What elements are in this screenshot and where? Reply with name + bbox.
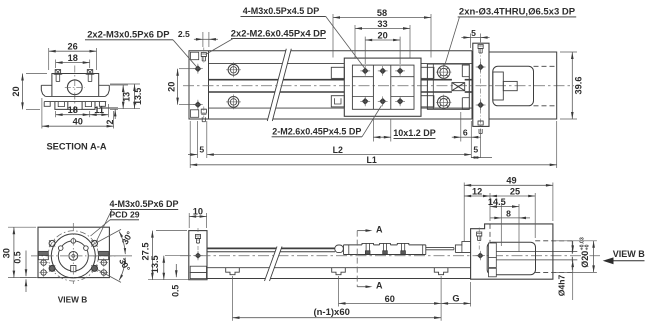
bottom view: motor hidden outline (dashed): [535, 240, 572, 242]
section cut line A-A: [356, 231, 358, 287]
top view: motor flange plate: [473, 43, 489, 126]
section A-A: ball screw bore circle: [67, 80, 82, 95]
bottom view: T-slots: [226, 268, 240, 275]
bottom view: coupling housing steps: [489, 224, 491, 243]
dim 18 top: [55, 60, 57, 69]
svg-text:L2: L2: [333, 145, 343, 155]
dim 40 bottom: [41, 98, 43, 129]
svg-text:18: 18: [68, 53, 78, 63]
bottom view: motor shaft solid lines: [496, 251, 577, 253]
dim 0.5 left (rotated): [20, 277, 38, 279]
dim 8: [500, 204, 502, 246]
top view: motor flange boss: [493, 72, 504, 100]
view B: side clamp blocks: [38, 251, 48, 255]
dim 25: [534, 193, 536, 238]
dim 18 bottom: [55, 111, 57, 117]
bottom view: bracket screw + centerline: [478, 228, 480, 251]
dim 20 left of rail: [179, 68, 195, 70]
svg-text:Ø20: Ø20: [580, 251, 590, 268]
svg-text:13.5: 13.5: [133, 88, 143, 105]
svg-text:G: G: [452, 293, 459, 303]
section A-A: table top screws M3: [55, 70, 60, 75]
top view: break lines: [267, 49, 291, 121]
svg-text:2xn-Ø3.4THRU,Ø6.5x3 DP: 2xn-Ø3.4THRU,Ø6.5x3 DP: [459, 7, 576, 18]
dim 30 left: [8, 226, 36, 228]
svg-text:30: 30: [2, 248, 12, 258]
top view: bearing symbol (crossed box): [452, 83, 465, 91]
top view: rail edge lines: [209, 63, 345, 65]
svg-text:2-M2.6x0.45Px4.5 DP: 2-M2.6x0.45Px4.5 DP: [272, 127, 361, 137]
view B: 30deg dimension lines: [92, 229, 122, 245]
svg-text:PCD 29: PCD 29: [109, 210, 139, 220]
svg-text:A: A: [376, 281, 383, 291]
dim 58: [332, 14, 334, 58]
svg-text:20: 20: [377, 30, 387, 40]
svg-text:58: 58: [377, 8, 387, 18]
top view: plate screw centerline: [480, 39, 482, 132]
dim L2: [207, 154, 472, 156]
svg-text:2.5: 2.5: [178, 29, 190, 39]
view B: shaft circle: [69, 252, 78, 261]
svg-text:4-M3x0.5Px4.5 DP: 4-M3x0.5Px4.5 DP: [243, 6, 320, 16]
svg-text:20: 20: [166, 82, 176, 92]
dim L1: [189, 121, 191, 168]
top view: left end block: [208, 51, 210, 119]
svg-text:0.5: 0.5: [13, 251, 23, 263]
view B: center crosslines: [72, 223, 74, 284]
svg-text:11: 11: [94, 105, 104, 115]
dim 39.6 right: [560, 51, 577, 53]
section A-A: base band lines: [45, 95, 105, 97]
svg-text:5: 5: [199, 145, 204, 155]
top view: plate top/bottom screws: [478, 45, 483, 49]
dim Ø4h7 (rotated): [572, 241, 574, 253]
svg-text:33: 33: [377, 19, 387, 29]
svg-text:20: 20: [11, 86, 21, 96]
top view: right block bracket features: [462, 65, 469, 77]
svg-text:8: 8: [506, 208, 511, 218]
svg-text:0.5: 0.5: [170, 285, 180, 297]
dim 11 bottom: [107, 104, 109, 117]
bottom view: base rail lower lines: [207, 267, 471, 269]
view B: housing rectangle: [38, 227, 109, 277]
dim 49: [463, 183, 465, 242]
bottom view: block center screw (diamond): [195, 252, 201, 258]
top view: carriage screw holes (diamonds): [362, 68, 369, 75]
bottom view: base rail top surface (thick): [207, 247, 335, 249]
dim 13.5 right: [110, 83, 140, 85]
dim 60: [338, 276, 340, 307]
dim Ø20 +0.03/+0 (rotated): [593, 241, 595, 273]
top view: main body outline: [189, 51, 472, 119]
top view: carriage right wipers: [421, 67, 434, 78]
svg-text:6: 6: [463, 127, 468, 137]
svg-text:40: 40: [73, 117, 83, 127]
dim 12: [489, 193, 491, 221]
section A-A: moving table outline: [52, 74, 99, 97]
top view: rail mounting holes: [228, 64, 239, 75]
dim 26 top: [48, 48, 50, 70]
dim 2.5 top-left: [202, 32, 204, 47]
dim 20 left of section: [26, 73, 47, 75]
svg-text:A: A: [376, 225, 383, 235]
dim 20 (carriage screws): [364, 37, 366, 64]
top view: motor body rounded square: [493, 66, 534, 106]
svg-text:26: 26: [67, 42, 77, 52]
svg-text:10: 10: [193, 207, 203, 217]
svg-text:13: 13: [122, 92, 132, 102]
view B: 4 mounting screws M3 on PCD: [49, 240, 55, 246]
svg-text:2x2-M3x0.5Px6 DP: 2x2-M3x0.5Px6 DP: [87, 29, 169, 40]
top view: ball screw cover band: [209, 79, 345, 81]
svg-text:VIEW B: VIEW B: [58, 294, 88, 304]
svg-text:VIEW B: VIEW B: [613, 249, 646, 259]
bottom view: screw cover plate right of carriage: [426, 247, 454, 249]
dim 33: [354, 25, 356, 58]
dim 13 right: [110, 84, 128, 86]
dim 5 right bottom: [480, 129, 482, 158]
svg-text:12: 12: [472, 186, 482, 196]
bottom view: block bottom detail rects: [190, 266, 206, 272]
top view: left block screws M3 (diamonds): [195, 65, 202, 72]
bottom view: carriage table body: [344, 244, 363, 246]
svg-text:30°: 30°: [117, 257, 132, 274]
bottom view: block top screw: [197, 228, 199, 250]
top view: motor hidden lines (dashed): [534, 65, 557, 67]
svg-text:+0: +0: [585, 244, 591, 250]
dim 10 (left block width): [188, 213, 190, 228]
bottom view: right end cap block: [455, 242, 470, 253]
section A-A: side wing ledges: [41, 84, 52, 86]
svg-text:L1: L1: [366, 155, 376, 165]
svg-text:5: 5: [471, 28, 476, 38]
svg-text:(n-1)x60: (n-1)x60: [313, 307, 349, 318]
svg-text:39.6: 39.6: [574, 77, 584, 95]
dim 10x1.2 DP: [372, 119, 374, 142]
svg-text:4-M3x0.5Px6 DP: 4-M3x0.5Px6 DP: [109, 199, 178, 209]
dim 5 top right: [469, 34, 471, 49]
top view: plate screws (diamonds): [477, 64, 484, 71]
bottom view: left end block: [189, 231, 207, 280]
section A-A: left wing profile: [41, 85, 45, 96]
section A-A: base feet and slots: [55, 102, 68, 110]
top view: centerline: [183, 85, 574, 87]
bottom view: carriage grease nipple (capsule): [335, 245, 344, 253]
top view: left block clamp screws M2.6: [201, 53, 206, 57]
bottom view: motor body (rounded): [487, 242, 535, 275]
svg-text:Ø4h7: Ø4h7: [557, 275, 567, 297]
dim 2 bottom right (rotated): [100, 106, 118, 108]
dim G: [470, 282, 472, 307]
svg-text:5: 5: [473, 144, 478, 154]
bottom view: centerline: [180, 255, 600, 257]
svg-text:13.5: 13.5: [150, 255, 160, 273]
bottom view: bracket center diamond: [477, 252, 483, 258]
view B: PCD 29 circle (dash-dot): [48, 231, 98, 281]
bottom view: break lines: [265, 247, 283, 282]
dim 13.5 left: [165, 255, 189, 257]
top view: motor shaft: [503, 81, 517, 90]
bottom view: motor pilot extension lines: [553, 240, 597, 242]
svg-text:2x2-M2.6x0.45Px4 DP: 2x2-M2.6x0.45Px4 DP: [231, 27, 326, 38]
section A-A: centerline vertical: [74, 66, 76, 114]
view B: 30deg arcs: [119, 232, 125, 255]
top view: motor housing box: [489, 52, 557, 119]
dim 14.5: [518, 204, 520, 252]
top view: carriage left wipers: [331, 67, 344, 78]
dim 27.5 left: [156, 230, 187, 232]
svg-text:10x1.2 DP: 10x1.2 DP: [393, 128, 436, 138]
svg-text:SECTION A-A: SECTION A-A: [46, 142, 106, 152]
dim 6: [460, 112, 462, 142]
section A-A: right wing profile: [105, 85, 109, 96]
svg-text:60: 60: [385, 294, 395, 304]
top view: carriage block outline: [344, 58, 421, 116]
view B: rotor circle with notches: [58, 241, 88, 271]
svg-text:30°: 30°: [120, 229, 135, 246]
dim (n-1)x60: [232, 276, 234, 321]
svg-text:14.5: 14.5: [488, 197, 506, 207]
bottom view: motor bracket outline: [471, 224, 553, 279]
svg-text:25: 25: [510, 186, 520, 196]
top view: carriage column dividers: [372, 65, 374, 109]
svg-text:49: 49: [506, 176, 516, 186]
top view: right end block: [427, 64, 469, 109]
svg-text:18: 18: [68, 105, 78, 115]
top view: right block through-screws: [438, 66, 450, 78]
dim 0.5 bottom left (rotated): [175, 264, 177, 277]
bottom view: carriage screw bumps: [362, 243, 374, 245]
view B: corner holes: [41, 260, 46, 265]
view B: motor pilot circle: [51, 234, 95, 278]
dim 5 left bottom: [197, 121, 199, 158]
